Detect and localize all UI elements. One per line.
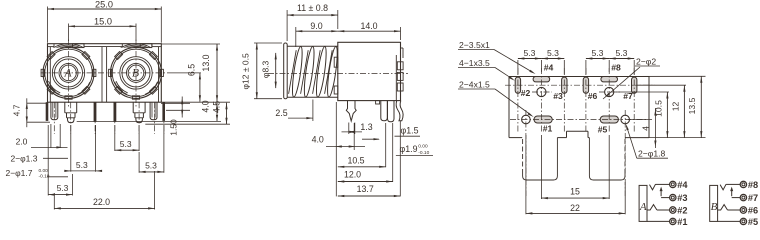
side pin tip-contact bbox=[346, 101, 356, 121]
front view inner wall left bbox=[49, 47, 51, 103]
svg-text:5.3: 5.3 bbox=[145, 161, 157, 171]
svg-text:#1: #1 bbox=[677, 217, 687, 227]
dim 6.5 right bbox=[199, 73, 201, 102]
svg-text:2.0: 2.0 bbox=[16, 136, 28, 146]
side block right contacts bbox=[397, 62, 403, 70]
side block lower step bbox=[334, 86, 338, 94]
svg-text:#1: #1 bbox=[543, 124, 553, 134]
svg-text:#8: #8 bbox=[748, 180, 758, 190]
dim 2.0 bbox=[50, 124, 52, 148]
terminal #6 bbox=[740, 207, 746, 213]
svg-text:13.5: 13.5 bbox=[687, 97, 697, 114]
fp dim 22 bbox=[526, 212, 625, 214]
pin centerline bbox=[70, 102, 72, 134]
dim phi8.3 bbox=[275, 53, 277, 88]
svg-text:2−φ2: 2−φ2 bbox=[636, 57, 656, 67]
svg-text:#4: #4 bbox=[544, 62, 554, 72]
svg-text:4−1x3.5: 4−1x3.5 bbox=[459, 58, 490, 68]
svg-text:5.3: 5.3 bbox=[120, 139, 132, 149]
svg-text:10.5: 10.5 bbox=[653, 100, 663, 117]
front view body outline bbox=[48, 44, 162, 102]
side round pin 1 bbox=[381, 101, 388, 121]
terminal #5 bbox=[740, 218, 746, 224]
terminal #3 bbox=[670, 194, 676, 200]
dim 5.3 lower-left bbox=[47, 125, 49, 196]
svg-text:#2: #2 bbox=[677, 205, 687, 215]
footprint h-centerline circles a bbox=[532, 91, 552, 93]
footprint h-centerline ovals bbox=[505, 84, 655, 86]
ground wire #5 bbox=[718, 220, 741, 222]
footprint right lobe bbox=[589, 138, 625, 180]
pin centerline bbox=[154, 102, 156, 134]
svg-text:A: A bbox=[639, 201, 647, 213]
terminal #1 bbox=[670, 218, 676, 224]
label phi1.9 bbox=[396, 155, 433, 157]
fp dim 15 bbox=[541, 197, 609, 199]
svg-text:5.3: 5.3 bbox=[616, 48, 628, 58]
fp baseline ext bbox=[649, 137, 706, 139]
svg-text:6.5: 6.5 bbox=[186, 64, 196, 76]
svg-text:#3: #3 bbox=[677, 193, 687, 203]
switch contact #4 bbox=[650, 184, 656, 190]
svg-text:φ8.3: φ8.3 bbox=[260, 60, 270, 78]
dim 4.7 left bbox=[26, 98, 28, 127]
dim 15.0 bbox=[68, 24, 70, 42]
fp dim 5.3 d bbox=[609, 58, 634, 60]
dim 12.0 side bbox=[392, 123, 394, 182]
pad vertical oval 1 bbox=[515, 77, 520, 93]
pad horizontal oval top 2 bbox=[601, 77, 618, 82]
svg-text:B: B bbox=[711, 201, 718, 213]
dim 9.0 bbox=[295, 27, 297, 47]
footprint outline bottom bbox=[509, 137, 522, 139]
front right side tab bbox=[162, 102, 165, 121]
svg-text:#6: #6 bbox=[748, 205, 758, 215]
svg-text:#5: #5 bbox=[598, 125, 608, 135]
dim 10.5 side bbox=[385, 123, 387, 167]
hole phi2 1 bbox=[537, 87, 546, 96]
dim 25.0 bbox=[47, 7, 49, 43]
dim 2.5 bbox=[312, 100, 314, 122]
svg-text:22: 22 bbox=[570, 203, 580, 213]
svg-text:2−3.5x1: 2−3.5x1 bbox=[459, 40, 490, 50]
pad vertical oval 2 bbox=[562, 77, 567, 93]
dim 11+-0.8 bbox=[286, 10, 288, 41]
fp ext 22 bbox=[525, 135, 527, 214]
svg-text:B: B bbox=[132, 68, 139, 80]
svg-text:φ1.5: φ1.5 bbox=[401, 126, 419, 136]
svg-text:5.3: 5.3 bbox=[592, 48, 604, 58]
front center pin B bbox=[132, 102, 134, 113]
svg-text:#8: #8 bbox=[611, 62, 621, 72]
pad vertical oval 4 bbox=[632, 77, 637, 93]
svg-text:5.3: 5.3 bbox=[76, 160, 88, 170]
fp ext 15 bbox=[540, 135, 542, 199]
label phi1.5 bbox=[395, 135, 421, 137]
svg-text:13.7: 13.7 bbox=[357, 184, 374, 194]
pad horizontal oval top 1 bbox=[533, 77, 550, 82]
spring contact #6 bbox=[718, 205, 728, 210]
switch contact #8 bbox=[720, 184, 726, 190]
dim phi12 bbox=[254, 42, 282, 44]
schematic body B bbox=[710, 185, 718, 221]
svg-text:-0.10: -0.10 bbox=[418, 150, 429, 156]
svg-text:10.5: 10.5 bbox=[347, 155, 364, 165]
jack B concentric rings bbox=[111, 47, 162, 98]
front view shield tab B bbox=[140, 44, 152, 48]
svg-text:5.3: 5.3 bbox=[524, 48, 536, 58]
svg-text:2−φ1.3: 2−φ1.3 bbox=[10, 154, 37, 164]
side centerline bbox=[268, 73, 408, 75]
front middle tab 1 bbox=[94, 102, 97, 122]
dim 4.0 side bbox=[335, 102, 337, 196]
hole phi2 2 bbox=[605, 87, 614, 96]
side block inner contact strip bbox=[395, 55, 397, 101]
footprint v-centerline c18b bbox=[624, 110, 626, 196]
svg-text:12.0: 12.0 bbox=[344, 169, 361, 179]
svg-text:2−φ1.7: 2−φ1.7 bbox=[5, 168, 32, 178]
front U-pin A bbox=[51, 102, 58, 120]
jack A concentric rings bbox=[43, 47, 94, 98]
svg-text:4.0: 4.0 bbox=[312, 135, 324, 145]
pad #1 oval bbox=[534, 116, 552, 123]
hole phi1.8 right bbox=[621, 115, 630, 124]
svg-text:15: 15 bbox=[570, 187, 580, 197]
svg-text:0.00: 0.00 bbox=[418, 143, 428, 149]
footprint v-centerline bbox=[563, 68, 565, 133]
footprint h-centerline lower bbox=[510, 119, 648, 121]
svg-text:2−4x1.5: 2−4x1.5 bbox=[459, 80, 490, 90]
svg-text:#3: #3 bbox=[553, 91, 563, 101]
front center pin A bbox=[64, 102, 66, 113]
svg-text:#4: #4 bbox=[677, 180, 688, 190]
front left side tab bbox=[46, 102, 49, 121]
svg-text:#7: #7 bbox=[623, 91, 633, 101]
svg-text:12: 12 bbox=[670, 102, 680, 112]
dim 4.0 right bbox=[77, 120, 221, 122]
front view inner walls center bbox=[101, 47, 103, 103]
ground wire #1 bbox=[647, 220, 670, 222]
svg-text:4: 4 bbox=[641, 126, 651, 131]
front vertical centerline A bbox=[68, 40, 70, 108]
svg-text:#7: #7 bbox=[748, 193, 758, 203]
footprint v-centerline bbox=[608, 68, 610, 133]
schematic body A bbox=[639, 185, 647, 221]
svg-text:4.0: 4.0 bbox=[201, 100, 211, 112]
svg-text:#6: #6 bbox=[588, 91, 598, 101]
side round pin 2 bbox=[388, 101, 395, 122]
terminal #7 bbox=[740, 194, 746, 200]
svg-text:A: A bbox=[63, 68, 72, 80]
front middle tab 2 bbox=[114, 102, 117, 122]
svg-text:25.0: 25.0 bbox=[95, 0, 113, 9]
pin centerline bbox=[163, 102, 165, 134]
svg-text:2.5: 2.5 bbox=[275, 108, 287, 118]
svg-text:15.0: 15.0 bbox=[94, 16, 112, 26]
svg-text:9.0: 9.0 bbox=[310, 21, 322, 31]
svg-text:#2: #2 bbox=[521, 88, 531, 98]
svg-text:13.0: 13.0 bbox=[201, 54, 211, 71]
dim 4.5 right bbox=[145, 123, 230, 125]
svg-text:φ12 ± 0.5: φ12 ± 0.5 bbox=[241, 53, 251, 89]
dim 1.50 right bbox=[161, 102, 190, 104]
front view body inner top edge bbox=[48, 46, 55, 48]
footprint v-centerline bbox=[540, 68, 542, 133]
footprint outline right bbox=[648, 77, 650, 138]
svg-text:4.5: 4.5 bbox=[211, 101, 221, 113]
front view shield roll arcs B bbox=[107, 44, 165, 102]
svg-text:2−φ1.8: 2−φ1.8 bbox=[638, 149, 666, 159]
spring contact #2 bbox=[647, 205, 657, 210]
fp dim 10.5 bbox=[616, 91, 669, 93]
pin centerline bbox=[114, 102, 116, 134]
pad vertical oval 3 bbox=[583, 77, 588, 93]
fp ext lines 5.3 bbox=[517, 60, 519, 75]
side barrel rim flange bbox=[284, 43, 288, 99]
terminal #8 bbox=[740, 181, 746, 187]
terminal #2 bbox=[670, 207, 676, 213]
fp dim 13.5 bbox=[700, 76, 702, 137]
footprint left lobe bbox=[523, 138, 558, 180]
front view inner wall right bbox=[158, 47, 160, 103]
svg-text:0.00: 0.00 bbox=[39, 168, 49, 174]
side block outline bbox=[338, 42, 401, 100]
front view top edge ticks bbox=[53, 44, 55, 47]
footprint v-centerline bbox=[585, 68, 587, 133]
footprint v-centerline bbox=[633, 68, 635, 133]
terminal #4 bbox=[670, 181, 676, 187]
side barrel outline bbox=[287, 45, 338, 47]
pad #5 oval bbox=[600, 116, 618, 123]
svg-text:1.3: 1.3 bbox=[360, 122, 372, 132]
dim 14.0 bbox=[400, 27, 402, 40]
footprint v-centerline bbox=[517, 68, 519, 133]
front horizontal centerline bbox=[41, 72, 169, 74]
svg-text:#5: #5 bbox=[748, 217, 758, 227]
side block tab left bbox=[334, 57, 338, 67]
side bent pin bbox=[396, 101, 403, 121]
front view shield roll arcs A bbox=[39, 44, 97, 102]
fp dim 12 bbox=[683, 85, 685, 137]
switch actuator arrow bbox=[731, 189, 733, 196]
footprint outline left bbox=[508, 77, 510, 138]
dim 5.3 right-2 bbox=[138, 152, 140, 173]
dim 13.7 side bbox=[399, 121, 401, 196]
fp dim 5.3 a bbox=[518, 58, 542, 60]
hole phi1.8 left bbox=[522, 115, 531, 124]
dim 5.3 upper-left bbox=[70, 125, 72, 172]
dim 5.3 right-1 bbox=[114, 125, 116, 151]
switch actuator arrow bbox=[660, 189, 662, 196]
svg-text:φ1.9: φ1.9 bbox=[400, 144, 418, 154]
svg-text:14.0: 14.0 bbox=[360, 21, 377, 31]
front vertical centerline B bbox=[135, 40, 137, 108]
svg-text:22.0: 22.0 bbox=[93, 197, 110, 207]
fp dim 5.3 c bbox=[586, 58, 609, 60]
pin centerline bbox=[94, 102, 96, 134]
pin centerline bbox=[138, 102, 140, 134]
fp ext hov row bbox=[618, 75, 706, 77]
fp dim 5.3 b bbox=[541, 58, 564, 60]
svg-text:5.3: 5.3 bbox=[547, 48, 559, 58]
dim 22.0 bbox=[53, 193, 55, 210]
footprint outline top bbox=[509, 76, 649, 78]
svg-text:11 ± 0.8: 11 ± 0.8 bbox=[297, 3, 328, 13]
side small step under body bbox=[376, 101, 380, 104]
svg-text:4.7: 4.7 bbox=[12, 104, 22, 116]
dim 13.0 right bbox=[161, 43, 220, 45]
fp dim 4 bbox=[628, 119, 652, 121]
dim 1.3 bbox=[348, 123, 350, 135]
footprint v-centerline c18a bbox=[525, 110, 527, 196]
svg-text:5.3: 5.3 bbox=[57, 183, 69, 193]
side spring coils bbox=[290, 46, 304, 97]
front U-pin B bbox=[150, 102, 157, 120]
svg-text:1.50: 1.50 bbox=[169, 119, 179, 136]
front view shield tab A bbox=[73, 44, 85, 48]
footprint h-centerline circles b bbox=[599, 91, 620, 93]
pin centerline bbox=[53, 102, 55, 134]
